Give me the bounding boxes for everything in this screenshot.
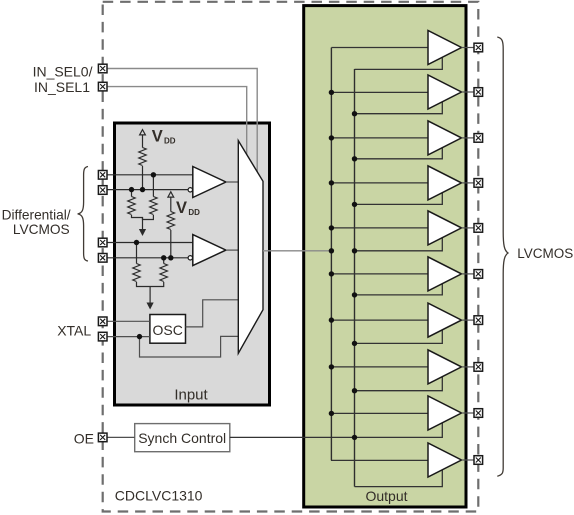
wire output Y6 to pad bbox=[462, 273, 474, 275]
junction dot clock bus mux feed bbox=[329, 248, 334, 253]
wire VDD1 stem bbox=[142, 135, 144, 147]
resistor termination R1a bbox=[128, 197, 135, 215]
svg-text:Synch Control: Synch Control bbox=[138, 430, 226, 446]
junction dot clock bus Y7 bbox=[329, 317, 334, 322]
brace LVCMOS outputs bbox=[497, 37, 508, 476]
pad XTAL1 bbox=[98, 317, 107, 326]
input buffer 1 bbox=[193, 167, 226, 198]
pad CLK0B bbox=[98, 186, 107, 195]
pad CLK0 bbox=[98, 171, 107, 180]
ground arrow network 1 bbox=[139, 229, 146, 236]
junction dot input2 inverting a bbox=[161, 255, 166, 260]
output buffer Y2 bbox=[428, 75, 462, 109]
pad Y7 bbox=[474, 316, 483, 325]
svg-text:LVCMOS: LVCMOS bbox=[517, 246, 573, 261]
svg-text:OSC: OSC bbox=[153, 322, 183, 338]
wire output Y9 to pad bbox=[462, 412, 474, 414]
svg-text:IN_SEL0/: IN_SEL0/ bbox=[33, 63, 93, 79]
wire enable tap buffer Y4 bbox=[355, 193, 443, 205]
wire termination join network 1 bbox=[132, 215, 154, 220]
wire termination join network 2 bbox=[137, 282, 164, 287]
clock bus (left) in output block bbox=[330, 48, 332, 461]
svg-text:Differential/: Differential/ bbox=[2, 207, 71, 222]
wire clock tap buffer Y4 bbox=[331, 182, 428, 184]
wire enable tap buffer Y7 bbox=[355, 330, 443, 344]
junction dot input1 bbox=[151, 172, 156, 177]
wire XTAL1 to OSC bbox=[103, 320, 150, 322]
output buffer Y4 bbox=[428, 166, 462, 200]
junction dot input1 inverting a bbox=[129, 187, 134, 192]
wire buffer2 output to mux bbox=[226, 249, 239, 251]
resistor VDD2 pull-up bbox=[167, 212, 174, 230]
brace differential inputs bbox=[78, 167, 88, 262]
wire enable tap buffer Y6 bbox=[355, 284, 443, 295]
wire enable tap buffer Y10 bbox=[355, 470, 443, 487]
wire output Y5 to pad bbox=[462, 227, 474, 229]
junction dot clock bus Y3 bbox=[329, 135, 334, 140]
wire enable tap buffer Y3 bbox=[355, 148, 443, 159]
output buffer Y10 bbox=[428, 443, 462, 477]
output buffer Y9 bbox=[428, 396, 462, 430]
wire output Y7 to pad bbox=[462, 319, 474, 321]
wire VDD1 resistor to inverting input bbox=[142, 166, 144, 190]
svg-text:Output: Output bbox=[365, 488, 407, 504]
wire synch control to enable bus bbox=[230, 423, 442, 438]
wire termination drop from input2 inverting bbox=[163, 258, 165, 264]
pad Y3 bbox=[474, 134, 483, 143]
wire differential input 2 (inverting) bbox=[103, 257, 189, 259]
wire XTAL bypass to mux bbox=[140, 336, 239, 357]
wire enable tap buffer Y1 bbox=[355, 57, 443, 69]
wire output Y2 to pad bbox=[462, 91, 474, 93]
output buffer Y6 bbox=[428, 257, 462, 291]
svg-text:XTAL: XTAL bbox=[57, 322, 91, 338]
svg-text:OE: OE bbox=[74, 430, 94, 446]
wire clock tap buffer Y9 bbox=[331, 412, 428, 414]
pad IN_SEL1 bbox=[98, 82, 107, 91]
wire VDD2 resistor to inverting input 2 bbox=[170, 230, 172, 258]
wire OE to synch control bbox=[103, 436, 135, 438]
wire clock tap buffer Y8 bbox=[331, 366, 428, 368]
svg-text:DD: DD bbox=[164, 136, 176, 145]
junction dot enable bus Y4 bbox=[352, 202, 357, 207]
resistor termination R2a bbox=[133, 264, 140, 282]
Input block background bbox=[115, 123, 270, 405]
chip boundary dashed border CDCLVC1310 bbox=[103, 2, 479, 512]
wire center tap to ground arrow 2 bbox=[149, 287, 151, 304]
pad Y2 bbox=[474, 88, 483, 97]
svg-text:Input: Input bbox=[174, 387, 208, 404]
junction dot enable bus Y6 bbox=[352, 292, 357, 297]
wire clock tap buffer Y5 bbox=[331, 227, 428, 229]
pad OE bbox=[98, 433, 107, 442]
junction dot enable bus Y8 bbox=[352, 388, 357, 393]
pad Y6 bbox=[474, 270, 483, 279]
pad Y8 bbox=[474, 363, 483, 372]
junction dot input2 bbox=[134, 240, 139, 245]
junction dot clock bus Y4 bbox=[329, 180, 334, 185]
wire enable tap buffer Y8 bbox=[355, 377, 443, 391]
output buffer Y8 bbox=[428, 350, 462, 384]
wire clock tap buffer Y2 bbox=[331, 91, 428, 93]
wire clock tap buffer Y3 bbox=[331, 137, 428, 139]
pad Y4 bbox=[474, 179, 483, 188]
junction dot input2 inverting b bbox=[168, 255, 173, 260]
svg-text:V: V bbox=[152, 128, 163, 146]
pad IN_SEL0 bbox=[98, 64, 107, 73]
oscillator OSC box bbox=[150, 315, 186, 344]
power symbol VDD pull-up 1 bbox=[140, 130, 146, 135]
wire XTAL2 to OSC bbox=[103, 336, 150, 338]
enable bus (right) in output block bbox=[354, 69, 356, 487]
Output block background bbox=[304, 6, 466, 507]
wire differential input 2 (non-inverting) bbox=[103, 242, 193, 244]
junction dot enable bus synch bbox=[352, 435, 357, 440]
wire termination drop from input1 bbox=[152, 175, 154, 197]
pad Y9 bbox=[474, 409, 483, 418]
output buffer Y5 bbox=[428, 211, 462, 245]
wire output Y4 to pad bbox=[462, 182, 474, 184]
wire termination drop from input1 inverting bbox=[131, 190, 133, 197]
inverting bubble buffer 1 bbox=[188, 188, 192, 192]
inverting bubble buffer 2 bbox=[188, 256, 192, 260]
svg-text:DD: DD bbox=[188, 208, 200, 217]
wire output Y1 to pad bbox=[462, 47, 474, 49]
output buffer Y1 bbox=[428, 31, 462, 65]
junction dot clock bus Y8 bbox=[329, 364, 334, 369]
junction dot clock bus Y5 bbox=[329, 225, 334, 230]
pad XTAL2 bbox=[98, 332, 107, 341]
output buffer Y3 bbox=[428, 121, 462, 155]
junction dot clock bus Y9 bbox=[329, 411, 334, 416]
wire IN_SEL1 to mux select bbox=[103, 87, 247, 155]
wire buffer1 output to mux bbox=[226, 181, 239, 183]
pad Y10 bbox=[474, 456, 483, 465]
junction dot XTAL2 bbox=[137, 334, 142, 339]
pad CLK1 bbox=[98, 238, 107, 247]
junction dot clock bus Y2 bbox=[329, 90, 334, 95]
synch control box bbox=[135, 424, 230, 452]
junction dot enable bus Y7 bbox=[352, 341, 357, 346]
wire output Y8 to pad bbox=[462, 366, 474, 368]
junction dot enable bus Y2 bbox=[352, 111, 357, 116]
resistor termination R2b bbox=[160, 264, 167, 282]
junction dot clock bus Y6 bbox=[329, 271, 334, 276]
power symbol VDD pull-up 2 bbox=[168, 192, 174, 197]
wire differential input 1 (inverting) bbox=[103, 189, 189, 191]
pad Y5 bbox=[474, 224, 483, 233]
wire output Y10 to pad bbox=[462, 459, 474, 461]
svg-text:LVCMOS: LVCMOS bbox=[13, 222, 70, 237]
pad Y1 bbox=[474, 43, 483, 52]
wire OSC output to mux bbox=[186, 300, 239, 327]
wire enable tap buffer Y2 bbox=[355, 102, 443, 114]
resistor termination R1b bbox=[150, 197, 157, 215]
svg-text:IN_SEL1: IN_SEL1 bbox=[34, 79, 90, 95]
ground arrow network 2 bbox=[147, 303, 154, 310]
svg-text:CDCLVC1310: CDCLVC1310 bbox=[115, 488, 203, 504]
wire clock tap buffer Y6 bbox=[331, 273, 428, 275]
wire IN_SEL0 to mux select bbox=[103, 69, 258, 172]
wire clock tap buffer Y10 bbox=[331, 459, 428, 461]
junction dot enable bus Y5 bbox=[352, 248, 357, 253]
pad CLK1B bbox=[98, 254, 107, 263]
input buffer 2 bbox=[193, 235, 226, 266]
output buffer Y7 bbox=[428, 303, 462, 337]
wire enable tap buffer Y5 bbox=[355, 238, 443, 251]
wire clock tap buffer Y1 bbox=[331, 47, 428, 49]
wire clock tap buffer Y7 bbox=[331, 319, 428, 321]
junction dot input1 inverting b bbox=[140, 187, 145, 192]
wire termination drop from input2 bbox=[136, 243, 138, 264]
wire differential input 1 (non-inverting) bbox=[103, 174, 193, 176]
wire VDD2 stem bbox=[170, 197, 172, 211]
mux U1 bbox=[238, 141, 263, 354]
resistor VDD1 pull-up bbox=[139, 148, 146, 166]
svg-text:V: V bbox=[176, 199, 187, 217]
wire center tap to ground arrow 1 bbox=[142, 218, 144, 231]
wire mux output to output bus bbox=[263, 250, 331, 252]
wire output Y3 to pad bbox=[462, 137, 474, 139]
junction dot enable bus Y3 bbox=[352, 156, 357, 161]
